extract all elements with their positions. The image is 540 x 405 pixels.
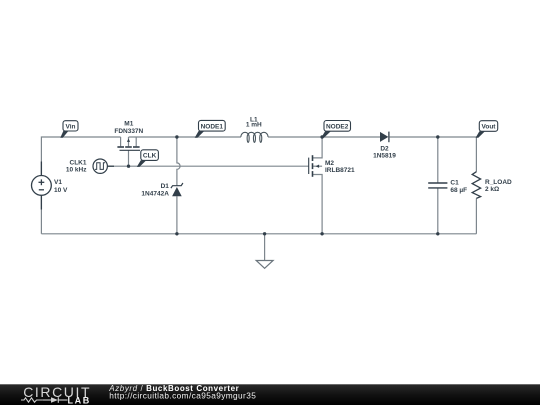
inductor L1 <box>241 116 268 142</box>
junction ground stem <box>263 232 266 235</box>
svg-text:C1: C1 <box>450 180 459 187</box>
resistor R_LOAD <box>472 172 512 199</box>
junction D1 bottom <box>175 232 178 235</box>
node NODE1 flag <box>195 120 226 137</box>
svg-text:10 kHz: 10 kHz <box>66 167 87 174</box>
svg-text:LAB: LAB <box>68 395 91 405</box>
capacitor C1 <box>428 180 467 194</box>
wire M2 source lead to ground rail <box>313 175 322 234</box>
transistor M1 FDN337N <box>114 121 143 151</box>
svg-text:1N4742A: 1N4742A <box>141 190 169 197</box>
node Vout flag <box>476 121 498 138</box>
node NODE2 flag <box>321 121 350 138</box>
node Vin flag <box>60 121 78 138</box>
wire L1 to D2 anode <box>268 136 380 138</box>
wire ground stem <box>264 234 266 261</box>
footer title text <box>108 384 256 401</box>
svg-text:Vin: Vin <box>66 123 76 130</box>
junction M2 drain / NODE2 <box>320 135 323 138</box>
voltage source V1 <box>32 162 69 210</box>
svg-text:68 µF: 68 µF <box>450 187 467 194</box>
svg-text:10 V: 10 V <box>54 187 68 194</box>
transistor M2 IRLB8721 <box>309 155 355 177</box>
svg-text:CLK: CLK <box>143 153 157 160</box>
svg-text:IRLB8721: IRLB8721 <box>325 167 355 174</box>
ground <box>256 261 273 269</box>
CircuitLab logo <box>21 384 91 405</box>
junction M2 source <box>320 232 323 235</box>
clock source CLK1 <box>66 159 114 174</box>
wire C1 bottom lead <box>437 188 439 234</box>
svg-text:CLK1: CLK1 <box>70 159 87 166</box>
svg-text:1N5819: 1N5819 <box>373 153 396 160</box>
svg-text:D1: D1 <box>161 183 170 190</box>
svg-text:FDN337N: FDN337N <box>114 128 143 135</box>
wire M1 drain lead <box>120 137 122 146</box>
node CLK flag <box>137 150 159 167</box>
svg-text:Vout: Vout <box>482 123 497 130</box>
svg-text:NODE2: NODE2 <box>326 123 349 130</box>
junction C1 bottom <box>436 232 439 235</box>
wire C1 top lead <box>437 137 439 183</box>
svg-text:M2: M2 <box>325 160 334 167</box>
wire M1 source lead <box>135 137 137 146</box>
wire M2 body lead <box>313 165 322 167</box>
svg-text:V1: V1 <box>54 179 62 186</box>
wire D2 cathode to Vout corner and down to R_LOAD <box>390 137 477 172</box>
junction C1 top <box>436 135 439 138</box>
wire V1 bottom to ground rail <box>40 195 42 233</box>
diode D2 1N5819 <box>373 132 396 160</box>
wire M1 source to L1 <box>129 136 241 138</box>
wire top-left from V1 to M1 drain <box>41 137 120 176</box>
svg-text:D2: D2 <box>380 146 389 153</box>
svg-text:1 mH: 1 mH <box>246 122 262 129</box>
svg-text:NODE1: NODE1 <box>201 123 224 130</box>
svg-text:http://circuitlab.com/ca95a9ym: http://circuitlab.com/ca95a9ymgur35 <box>109 391 256 401</box>
svg-text:2 kΩ: 2 kΩ <box>485 186 499 193</box>
junction M1 gate on CLK net <box>127 165 130 168</box>
wire D1 branch top with hop over CLK wire <box>177 137 180 186</box>
wire bottom ground rail <box>41 233 476 235</box>
zener diode D1 1N4742A <box>141 183 182 197</box>
junction D1 top <box>175 135 178 138</box>
svg-text:M1: M1 <box>124 121 133 128</box>
wire R_LOAD bottom lead <box>475 198 477 233</box>
wire M1 gate lead <box>128 150 130 166</box>
footer bar <box>0 384 540 405</box>
wire M2 drain lead <box>313 137 322 158</box>
wire CLK net from CLK1 to M2 gate <box>107 165 309 167</box>
wire M1 body lead <box>128 137 130 146</box>
svg-text:R_LOAD: R_LOAD <box>485 179 512 186</box>
wire D1 anode to ground rail <box>176 196 178 234</box>
